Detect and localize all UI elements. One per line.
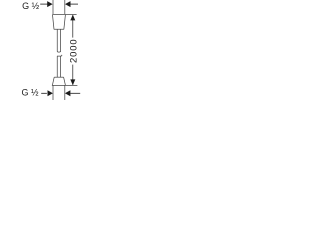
dimension arrowhead up bbox=[70, 15, 75, 21]
bottom nut top edge bbox=[54, 76, 63, 78]
top nut cap right edge / extension line bbox=[64, 0, 66, 15]
bottom nut cap right edge / extension line bbox=[64, 85, 66, 100]
dimension arrowhead down bbox=[70, 79, 75, 85]
top nut body bbox=[53, 15, 66, 29]
hose lower segment bbox=[57, 56, 60, 77]
top nut cap left edge / extension line bbox=[52, 0, 54, 15]
hose upper segment bbox=[57, 30, 60, 52]
svg-text:G ½: G ½ bbox=[22, 1, 40, 11]
leader arrow bottom right bbox=[65, 90, 71, 96]
hose break lower cap bbox=[57, 55, 62, 56]
hose break upper cap bbox=[57, 50, 61, 53]
dimension line 2000 upper segment bbox=[72, 15, 74, 38]
svg-text:2000: 2000 bbox=[69, 38, 80, 63]
bottom nut body bbox=[52, 77, 65, 85]
top nut shoulder + dimension extension line bbox=[52, 13, 76, 15]
leader arrow top left bbox=[40, 3, 47, 5]
leader arrow top right bbox=[65, 1, 71, 7]
leader arrow bottom left bbox=[41, 92, 47, 94]
bottom nut cap left edge / extension line bbox=[52, 85, 54, 100]
bottom nut shoulder + dimension extension line bbox=[52, 84, 78, 86]
dimension line 2000 lower segment bbox=[72, 65, 74, 85]
svg-text:G ½: G ½ bbox=[22, 87, 40, 97]
